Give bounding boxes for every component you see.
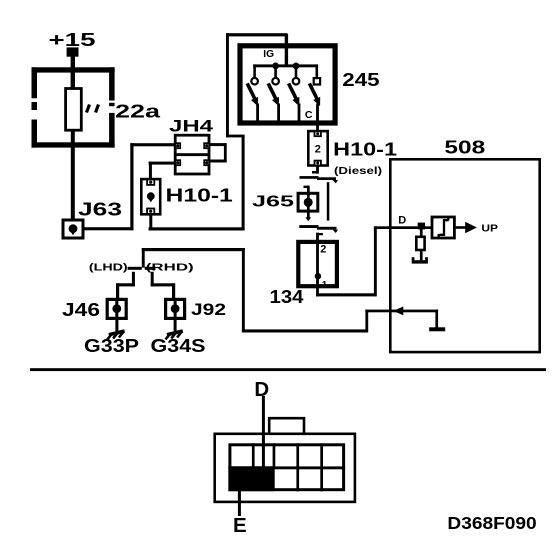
handbrake switch 134 box (298, 242, 337, 286)
wire down to internal ground (435, 310, 438, 328)
wire RHD branch (151, 272, 176, 299)
svg-text:22a: 22a (115, 102, 161, 122)
grid row divider (228, 466, 345, 469)
ground bar internal (429, 327, 445, 331)
connector break symbol 2 (299, 225, 338, 233)
switch blade 2 (268, 83, 280, 122)
switch contact 4 square (314, 78, 320, 84)
signal block U1 (432, 217, 454, 238)
ground G34S symbol (166, 319, 183, 340)
connector J46 (107, 299, 126, 319)
junction dot bus s3 (293, 63, 300, 70)
wire jog (226, 135, 245, 138)
resistor R1 (416, 228, 424, 261)
wire to JH4 pin top-left (130, 143, 176, 146)
wire riser into 508 lower pin (365, 310, 368, 333)
wire signal output (456, 226, 467, 229)
svg-text:+15: +15 (49, 30, 96, 50)
switch blade 1 (247, 83, 259, 122)
wire feed bottom horizontal (242, 329, 368, 332)
arrow output right (465, 222, 477, 233)
svg-text:134: 134 (270, 287, 304, 307)
wire lower input into 508 (365, 310, 438, 313)
switch contact 3 (293, 78, 300, 85)
junction dot bus s2 (272, 63, 279, 70)
wire junction to signal block (420, 226, 433, 229)
pin grid (230, 445, 344, 490)
wire split drop (142, 248, 145, 268)
svg-text:1: 1 (322, 280, 328, 291)
wire LHD branch (116, 272, 135, 299)
power terminal +15 (49, 30, 96, 57)
switch drop wires (253, 64, 318, 78)
ground G33P symbol (107, 319, 124, 340)
svg-text:H10-1: H10-1 (333, 139, 397, 159)
svg-text:(LHD): (LHD) (89, 262, 128, 274)
control unit 508 box (390, 159, 539, 352)
svg-text:C: C (305, 109, 313, 121)
switch contact 1 (251, 78, 258, 85)
arrow lower input (left) (393, 307, 403, 316)
junction dot in 134 (315, 273, 321, 279)
wire through 134 (316, 240, 319, 289)
svg-text:D368F090: D368F090 (447, 513, 537, 533)
pointer line E (238, 489, 241, 516)
svg-text:JH4: JH4 (169, 116, 214, 135)
connector break symbol 1 (300, 176, 339, 183)
wire 134 output down (316, 288, 319, 296)
fuse F22a symbol (66, 89, 82, 131)
wire H10-1 bottom horizontal (149, 227, 245, 230)
connector H10-1 (Diesel) (308, 131, 327, 165)
wire fuse to J63 (71, 129, 75, 220)
wire JH4 right loop (209, 143, 227, 162)
wire +15 to fuse box (71, 56, 75, 89)
wire break to J65 (304, 186, 310, 195)
wire entry into 245 (285, 34, 288, 67)
wire riser J63 to JH4 level (130, 143, 133, 230)
svg-text:J65: J65 (252, 194, 294, 211)
svg-text:H10-1: H10-1 (166, 185, 233, 205)
svg-text:245: 245 (342, 69, 379, 90)
svg-text:D: D (254, 378, 269, 401)
connector J65 (298, 193, 318, 212)
svg-text:UP: UP (481, 223, 498, 235)
svg-text:G34S: G34S (151, 336, 206, 356)
connector J92 (166, 299, 185, 319)
wire into 508 pin D (374, 226, 420, 229)
wire LHD/RHD feed horizontal (142, 248, 245, 251)
wire entry inside 245 (285, 45, 288, 67)
bus wire (253, 64, 318, 67)
svg-text:J63: J63 (78, 200, 122, 220)
ignition switch 245 box (240, 46, 335, 123)
svg-text:E: E (233, 514, 247, 537)
svg-text:G33P: G33P (84, 336, 139, 356)
bypass wire (non-diesel) (327, 182, 330, 220)
svg-text:2: 2 (320, 243, 326, 255)
wire top horizontal (226, 33, 288, 36)
switch blade 3 (289, 83, 301, 122)
wire riser to jog (242, 135, 245, 231)
switch blade 4 (309, 83, 320, 130)
wire H10-1 diesel bottom (312, 166, 319, 174)
connector J63 (63, 220, 83, 238)
wire J63 output (84, 227, 133, 230)
svg-text:2: 2 (315, 143, 321, 155)
housing tab (269, 418, 304, 434)
switch contact 2 (272, 78, 279, 85)
pointer line D (262, 396, 265, 468)
wire break to 134 (316, 233, 323, 242)
wire feed vertical (242, 248, 245, 332)
continuation tick marks inside fuse box (87, 105, 99, 113)
joint connector JH4 (174, 135, 210, 174)
fuse box 22a (dashed border) (32, 67, 115, 147)
svg-text:J46: J46 (62, 300, 100, 320)
wire 134 output horizontal (316, 293, 376, 296)
svg-text:508: 508 (444, 137, 485, 157)
wire J65 bottom with arrow (305, 212, 311, 221)
connector housing (215, 434, 355, 502)
separator line (30, 368, 546, 371)
pointer line D inside (262, 435, 265, 468)
ground bar under resistor (412, 257, 428, 263)
wire JH4 to H10-1 (149, 162, 176, 179)
svg-text:(Diesel): (Diesel) (334, 165, 382, 177)
connector H10-1 (141, 179, 160, 214)
wire H10-1 bottom drop (149, 215, 152, 230)
grid top dividers (252, 443, 323, 491)
svg-text:IG: IG (263, 48, 274, 60)
svg-text:D: D (398, 215, 406, 227)
junction dot at D (418, 223, 425, 230)
wire riser to top (226, 33, 229, 137)
wire riser to D input (374, 226, 377, 296)
filled pins D and E (228, 466, 274, 491)
split dashes (128, 267, 156, 270)
svg-text:J92: J92 (191, 300, 226, 319)
